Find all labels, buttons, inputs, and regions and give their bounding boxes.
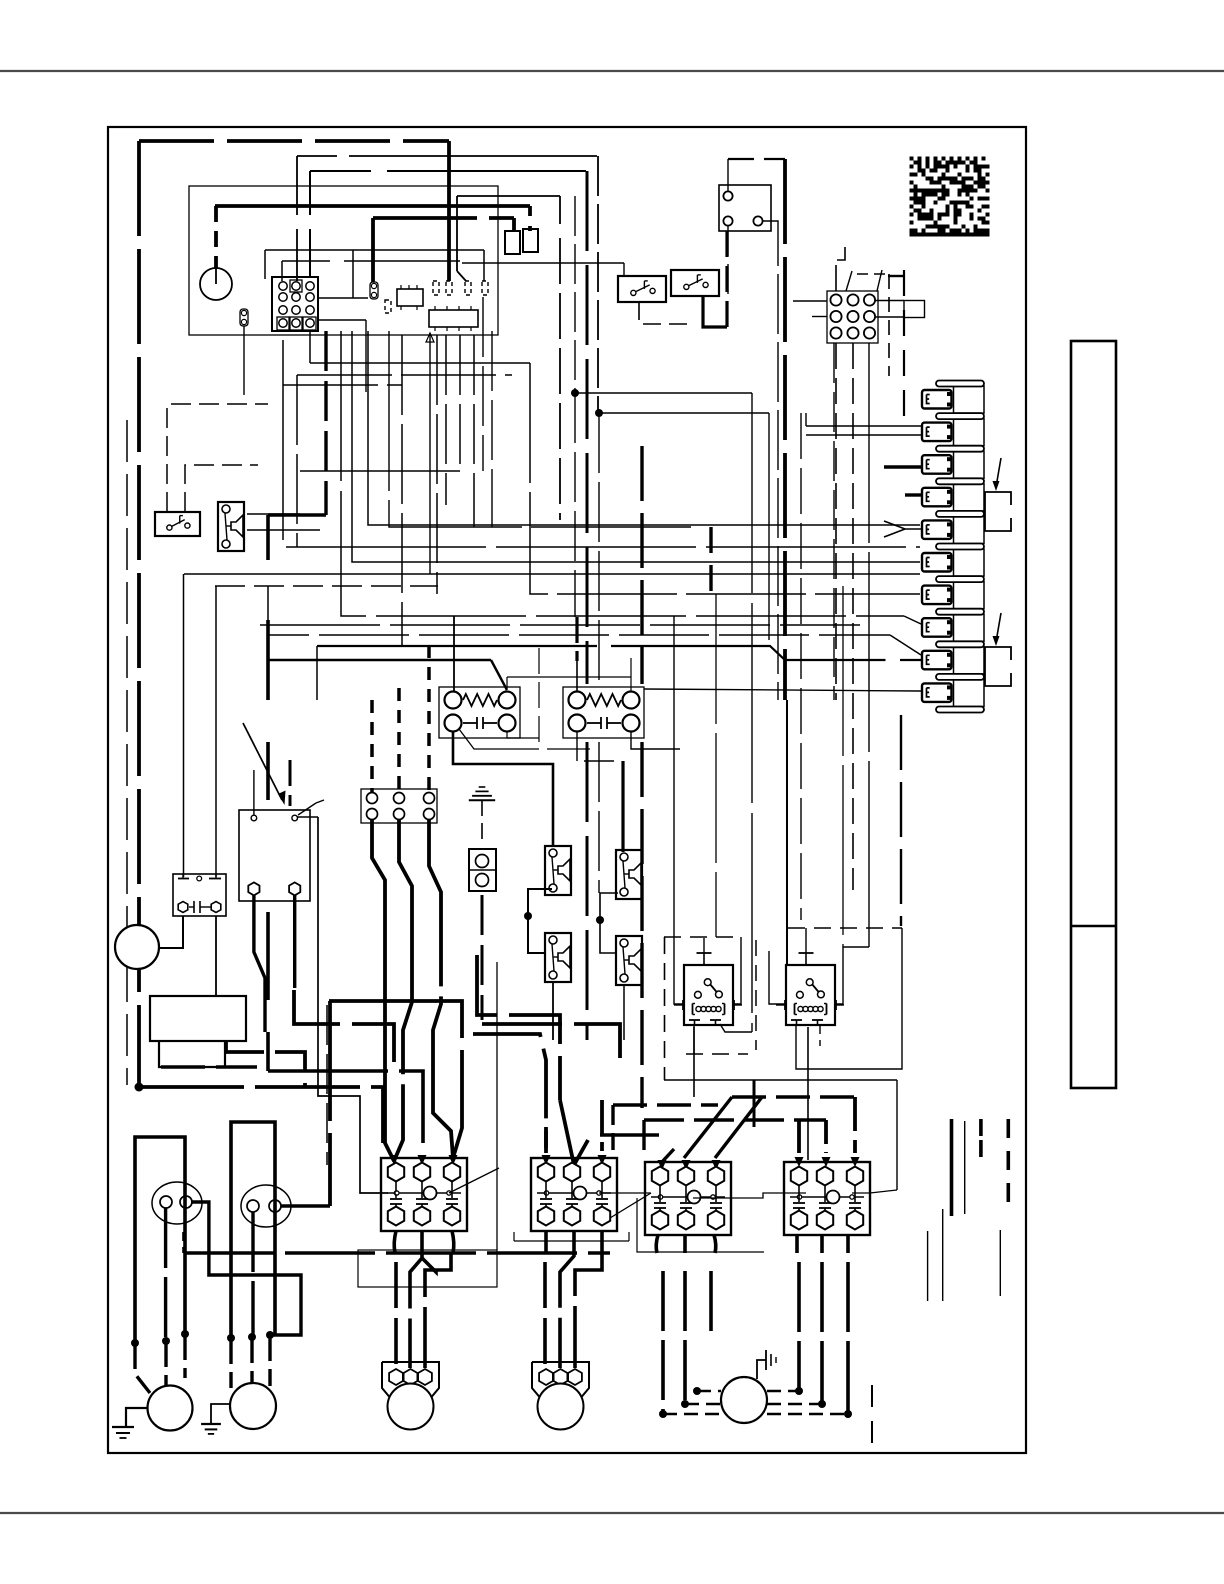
horn H0 <box>218 502 244 551</box>
K2 right link <box>297 816 318 818</box>
wire x457 drop <box>456 196 458 271</box>
wire L2 feed pi <box>231 1122 275 1338</box>
wire top y171 <box>310 170 371 172</box>
RC1 resistor <box>463 694 497 706</box>
arrow B3c2 <box>560 1100 574 1165</box>
datamatrix barcode <box>910 157 990 237</box>
feeder y1135 <box>600 1133 659 1136</box>
motor M1 <box>148 1386 193 1431</box>
page bottom rule <box>0 1512 1224 1514</box>
TB1 pins <box>279 282 287 290</box>
horn H1 <box>545 846 571 895</box>
bundle TB2c3 <box>429 819 453 1158</box>
horn H4 <box>616 936 642 985</box>
wire lamp1 out <box>191 1202 301 1335</box>
motor M5 <box>721 1377 767 1423</box>
wire J5 feed top <box>836 247 845 291</box>
wire thick drop x449 <box>447 141 451 281</box>
wire plug5 feed <box>884 521 921 529</box>
M0 lead <box>160 916 183 948</box>
wire thick drop x587 <box>586 171 589 684</box>
wire x769 drop <box>768 413 770 640</box>
wire x752 drop <box>751 393 753 1032</box>
lamp oval L2 <box>241 1185 291 1227</box>
wire L1 feed pi <box>135 1137 185 1343</box>
arrow B4c2 <box>824 1120 828 1153</box>
relay RLY1 <box>684 965 733 1025</box>
K2 pins <box>251 815 257 821</box>
wire x446 drop <box>445 335 447 505</box>
B4 out c3 <box>846 1235 850 1253</box>
wire plug10 feed y689 <box>644 689 921 691</box>
wire SW1 feed <box>462 262 624 264</box>
motor M2 <box>230 1383 276 1429</box>
wire x310 top drop <box>309 171 311 215</box>
arrow B4c1 <box>797 1120 801 1153</box>
feeder y1105 <box>613 1103 718 1106</box>
RC1 bottom out <box>453 732 553 846</box>
wire run y547 <box>283 340 920 547</box>
B3 out c1 <box>544 1231 548 1253</box>
RLY1 bottom hook <box>720 1024 752 1032</box>
fuse link A <box>240 309 248 326</box>
wire SW1 out <box>639 302 690 324</box>
M2 ground <box>211 1404 230 1424</box>
wire M1 in1 <box>135 1343 150 1393</box>
wire M2 in3 <box>268 1335 271 1386</box>
wire run y586 <box>215 585 438 587</box>
relay RLY2 <box>786 965 835 1025</box>
wire M2 in1 <box>229 1338 232 1388</box>
RLY2 right pin lead <box>836 947 869 1004</box>
wire x889 corner <box>857 273 889 275</box>
wire H0 right1 <box>247 513 300 515</box>
wire x869 drop <box>868 343 870 947</box>
B1 out c2 <box>420 1231 424 1253</box>
K2 bolts <box>248 882 259 895</box>
bundle TB2c2 <box>394 819 412 1161</box>
RLY2 enclosure top <box>788 927 902 929</box>
mark v3 <box>979 1119 983 1161</box>
RC1 thin link <box>507 676 631 678</box>
motor M0 <box>115 925 159 969</box>
RLY2 top feed <box>805 928 807 953</box>
mark v5 <box>927 1231 929 1301</box>
wire SW2 to K1 <box>725 231 728 327</box>
wire run y646 <box>317 646 888 660</box>
B3 mid link <box>599 1192 651 1194</box>
wire thick bus y218 <box>373 216 477 220</box>
wire run y527 <box>389 331 700 527</box>
wire K1 right lead <box>763 221 778 700</box>
contactor B3 <box>531 1158 617 1231</box>
RLY1 top feed <box>703 938 705 953</box>
TB1 bottom squares <box>277 317 289 330</box>
contactor B1 <box>381 1158 467 1231</box>
wire J5 right box <box>904 301 925 318</box>
relay box K2 <box>239 810 310 901</box>
mark v4 <box>1006 1119 1010 1215</box>
arrow B2c3 <box>715 1097 762 1158</box>
wire L2 left down <box>251 1212 254 1337</box>
wire left inner dash <box>126 420 128 1085</box>
fuse F2 <box>505 231 520 254</box>
RLY1 right pin lead <box>733 937 741 1004</box>
mark v1 <box>950 1119 954 1216</box>
wire x437 drop <box>436 335 438 594</box>
wire x474 drop <box>473 335 475 527</box>
wire J5 left feeds <box>793 300 827 302</box>
L1 pins <box>160 1196 172 1208</box>
wire TB1 right links <box>318 297 368 299</box>
bundle s1 <box>329 1001 462 1158</box>
schematic frame <box>108 127 1026 1453</box>
wire thick drop x785 <box>783 159 787 700</box>
node main junction <box>135 1083 144 1092</box>
F1 top row <box>178 878 189 880</box>
wire J5 down2 <box>852 343 854 890</box>
B1 mid terminal <box>395 1191 399 1195</box>
plug pins J3 <box>433 281 439 295</box>
wire x402 drop <box>401 335 403 646</box>
RC2 bottom out <box>577 731 621 761</box>
relay module K3 <box>397 289 423 306</box>
bundle right2 <box>482 1024 620 1060</box>
wire run y525 <box>368 331 920 525</box>
wire x642 thick <box>640 446 643 684</box>
wire M1 in2 <box>164 1341 167 1385</box>
arrow B2c1 <box>661 1149 674 1163</box>
battery box <box>150 996 246 1041</box>
node H1-H3 <box>524 912 532 920</box>
RC2 resistor <box>587 694 621 706</box>
wire run y660 <box>268 659 491 661</box>
RLY1 bottom lead1 <box>693 1024 695 1054</box>
terminal block TB2 <box>361 789 437 823</box>
connector bank housings <box>922 390 952 409</box>
RC1 bottom diag <box>459 729 590 749</box>
B2 out verticals <box>661 1271 665 1414</box>
K2 lever right <box>298 803 316 815</box>
B1 diag lever <box>449 1168 499 1193</box>
wire x492 stub <box>491 331 493 527</box>
F1 pins <box>178 902 188 913</box>
RLY1 enclosure bottom <box>686 1053 748 1055</box>
B2 enclosure <box>637 1198 764 1252</box>
J6 bottom lead <box>481 895 484 1020</box>
node B <box>595 409 603 417</box>
K2 pin leads <box>253 770 255 815</box>
RC2 bottom right out <box>631 731 680 749</box>
wire x754 thick drop <box>753 1080 756 1127</box>
wire run y562 <box>352 331 920 562</box>
B2 out c2 <box>683 1235 687 1253</box>
RC1 leads <box>453 616 455 692</box>
key switch stem <box>215 268 217 284</box>
wire x297 drop <box>296 375 298 547</box>
wire x560 drop <box>559 196 561 224</box>
wire x318 path <box>318 817 388 1193</box>
RC2 leads <box>575 617 578 661</box>
legend divider <box>1071 925 1116 927</box>
M5 wiring right <box>767 1390 799 1393</box>
wire x711 dash <box>709 527 712 592</box>
K2 pointer <box>243 723 282 800</box>
wire x901 dash <box>900 715 902 926</box>
wire thick top bus y141 <box>139 139 449 143</box>
wire x268 long <box>266 515 270 560</box>
K2 bolt leads <box>254 895 265 1032</box>
wire J5 down1 <box>835 343 837 700</box>
fuse F3 <box>523 229 538 252</box>
page top rule <box>0 70 1224 72</box>
wire H2 top thick <box>621 761 624 852</box>
wire run y635 <box>268 586 890 635</box>
module RC2 <box>563 687 644 738</box>
RLY2 left pin lead <box>769 951 787 1004</box>
connector 2pin J6 <box>469 849 496 891</box>
wire key switch feed <box>214 206 218 268</box>
feeder y1120 <box>644 1118 826 1121</box>
plug pin J4 <box>385 300 391 313</box>
wire thin x575 drop <box>574 196 576 393</box>
bundle s5 <box>161 1065 257 1069</box>
wire run y616 <box>341 331 904 616</box>
arrow B1c2 <box>418 1155 427 1165</box>
mark v2 <box>964 1121 966 1214</box>
RLY2 enclosure left <box>755 940 757 1050</box>
horn H3 <box>545 933 571 982</box>
bundle s3 <box>294 990 394 1071</box>
motor M4 <box>532 1362 589 1400</box>
terminal block TB1 <box>272 277 318 331</box>
wire thick bus y206 <box>215 204 530 208</box>
wire J5 right feeds <box>875 300 904 302</box>
wire fuseA lead <box>243 326 245 395</box>
contactor B2 <box>645 1162 731 1235</box>
wire SW3 top feed <box>167 404 268 512</box>
bottom junction dots <box>131 1339 139 1347</box>
wire SW2 out <box>703 296 727 327</box>
bundle s4 <box>226 1040 305 1087</box>
TB2 pins <box>367 793 378 804</box>
wire x184 stub <box>182 1232 186 1253</box>
wire H3 down <box>552 981 554 1040</box>
M5 wiring left <box>697 1390 721 1393</box>
wire run y385 <box>283 384 402 386</box>
J5 lever 1 <box>846 271 852 291</box>
wire thick left border <box>137 141 141 1087</box>
B2 out c1 <box>656 1235 658 1253</box>
battery sub-box <box>159 1041 225 1067</box>
key switch circle <box>200 268 232 300</box>
wire L1 left down <box>164 1208 167 1341</box>
relay K1 <box>719 185 771 231</box>
wire F2 feed <box>512 218 516 231</box>
wire x834 dash <box>833 343 835 700</box>
B1 enclosure <box>358 1250 497 1287</box>
bank bracket 1 lever <box>996 458 1001 487</box>
J5 pins <box>830 294 841 305</box>
wire thick drop x372 <box>371 218 375 282</box>
contactor B4 <box>784 1162 870 1235</box>
mark v7 <box>999 1230 1001 1296</box>
mark v6 <box>942 1209 944 1301</box>
battery top stub <box>215 916 217 996</box>
wire x904 thick <box>888 275 904 277</box>
arrow B1c1 <box>390 1155 399 1165</box>
wire x310 TB1 drop <box>309 331 311 363</box>
B4 out verticals <box>797 1262 801 1391</box>
B3 enclosure <box>514 1240 629 1242</box>
wire K1 top lead <box>727 159 729 191</box>
fuse box F1 <box>173 874 226 916</box>
RLY2 bottom lead2 <box>819 1024 821 1046</box>
wire K1 dashed top <box>728 158 785 160</box>
RC1 pins <box>445 692 462 709</box>
wire x215 drop <box>215 586 217 877</box>
wire x716 thin <box>715 594 717 937</box>
ground G1 <box>479 786 486 788</box>
wire plug3 feed <box>884 465 921 468</box>
bank bracket 1 <box>985 492 1011 531</box>
switch SW2 <box>671 270 719 296</box>
B2 diag lever <box>610 1193 651 1218</box>
fuse link B <box>370 282 378 299</box>
B4 out c2 <box>820 1235 824 1253</box>
wire run y574 <box>184 573 920 575</box>
motor M3 <box>382 1362 439 1400</box>
wire F3 feed <box>528 206 532 216</box>
wire y1080 run <box>664 1079 897 1081</box>
legend box <box>1071 341 1116 1088</box>
feeder RLY2 out <box>807 1027 809 1160</box>
arrow B1c3 <box>449 1155 458 1165</box>
M1 ground <box>126 1408 148 1427</box>
wire x801 dash <box>800 413 802 920</box>
wire x497 thin <box>496 962 498 1250</box>
bundle right1 <box>477 955 560 1100</box>
RC2 capacitor <box>587 722 601 724</box>
feeder RLY1 out <box>693 1027 695 1097</box>
wire thin x598 drop <box>597 156 599 413</box>
F1 cap <box>189 906 194 908</box>
B3 out c3 <box>600 1231 604 1253</box>
wire plug4 stub <box>905 493 921 496</box>
RC1 capacitor <box>463 722 477 724</box>
connector strip J2 <box>429 310 478 327</box>
mark v8 <box>871 1385 873 1450</box>
switch SW3 <box>155 512 200 536</box>
bank bracket 2 <box>985 647 1011 686</box>
wire top y196 <box>457 195 560 197</box>
bundle TB2c1 <box>372 819 394 1161</box>
wire SW3 top feed2 <box>185 465 258 512</box>
wire M2 in2 <box>250 1337 253 1384</box>
wire x785 lower <box>786 700 788 966</box>
horn H2 <box>616 850 642 899</box>
wire x317 drop <box>316 646 318 700</box>
RLY1 enclosure left <box>664 937 666 1080</box>
lamp oval L1 <box>152 1182 202 1224</box>
B1 out c3 <box>452 1231 454 1253</box>
wire M1 in3 <box>183 1334 186 1378</box>
B4 right exit <box>852 1190 897 1193</box>
switch SW1 <box>618 276 666 302</box>
wire arrow x430 <box>429 333 431 574</box>
B3 out c2 <box>572 1231 576 1253</box>
B1 out c1 <box>394 1231 396 1253</box>
B1 out verticals <box>394 1262 398 1368</box>
TB1 top square <box>290 280 302 292</box>
B2 out c3 <box>714 1235 716 1253</box>
M5 ground <box>757 1360 766 1379</box>
wire run y471 <box>300 470 460 472</box>
wire x483 stub <box>482 297 484 471</box>
bundle s2 <box>328 1001 332 1206</box>
node H2-H4 <box>596 916 604 924</box>
B4 out c1 <box>795 1235 799 1253</box>
wire lamp2 out <box>281 1204 330 1207</box>
wire H4 down <box>623 984 625 1040</box>
wire y261 link <box>282 260 330 262</box>
wire run y363 <box>310 362 530 364</box>
B4 mid feed <box>693 1193 806 1198</box>
wire K1 left lead down <box>727 226 729 300</box>
RLY1 enclosure top <box>664 936 741 938</box>
M5 junction dots <box>693 1387 701 1395</box>
wire top y156 <box>297 155 337 157</box>
B3 out verticals <box>543 1262 547 1368</box>
wire run y594 <box>530 363 920 594</box>
arrow B3c1 <box>544 1127 548 1153</box>
wire x297 top drop <box>296 156 298 215</box>
wire y1253 thick <box>184 1251 610 1255</box>
wire thick y515 <box>268 513 326 516</box>
wire thick y1087 <box>139 1087 383 1143</box>
wire x575 below <box>574 393 576 617</box>
RLY1 left pin lead <box>674 941 685 1004</box>
module RC1 <box>439 687 520 738</box>
bundle right3 <box>473 1034 546 1148</box>
wire x184 drop <box>183 574 185 877</box>
wire H0 right2 <box>247 529 320 531</box>
wire x327 dash <box>326 1005 328 1165</box>
arrow B3c3 <box>600 1100 604 1151</box>
wire y250 link <box>265 249 484 251</box>
bank bracket 2 lever <box>996 613 1001 642</box>
wire run y375 <box>297 374 512 376</box>
arrow B2c2 <box>684 1097 732 1158</box>
RLY2 bottom lead1 <box>796 928 902 1069</box>
TB2 stubs <box>370 700 374 792</box>
J5 lever 2 <box>877 270 882 291</box>
wire x599 below <box>598 413 600 684</box>
node A <box>571 389 579 397</box>
wire plug2 pair <box>806 425 921 427</box>
wire run y625 <box>260 624 860 626</box>
wire x843 drop <box>842 586 844 947</box>
wire x674 drop <box>673 616 675 941</box>
arrow B4c3 <box>853 1097 857 1153</box>
connector 3x3 J5 <box>827 291 878 343</box>
feeder y1097 <box>732 1095 855 1098</box>
control box outline <box>189 186 498 335</box>
RC2 pins <box>569 692 586 709</box>
L2 pins <box>247 1200 259 1212</box>
connector bank comb <box>954 386 985 413</box>
